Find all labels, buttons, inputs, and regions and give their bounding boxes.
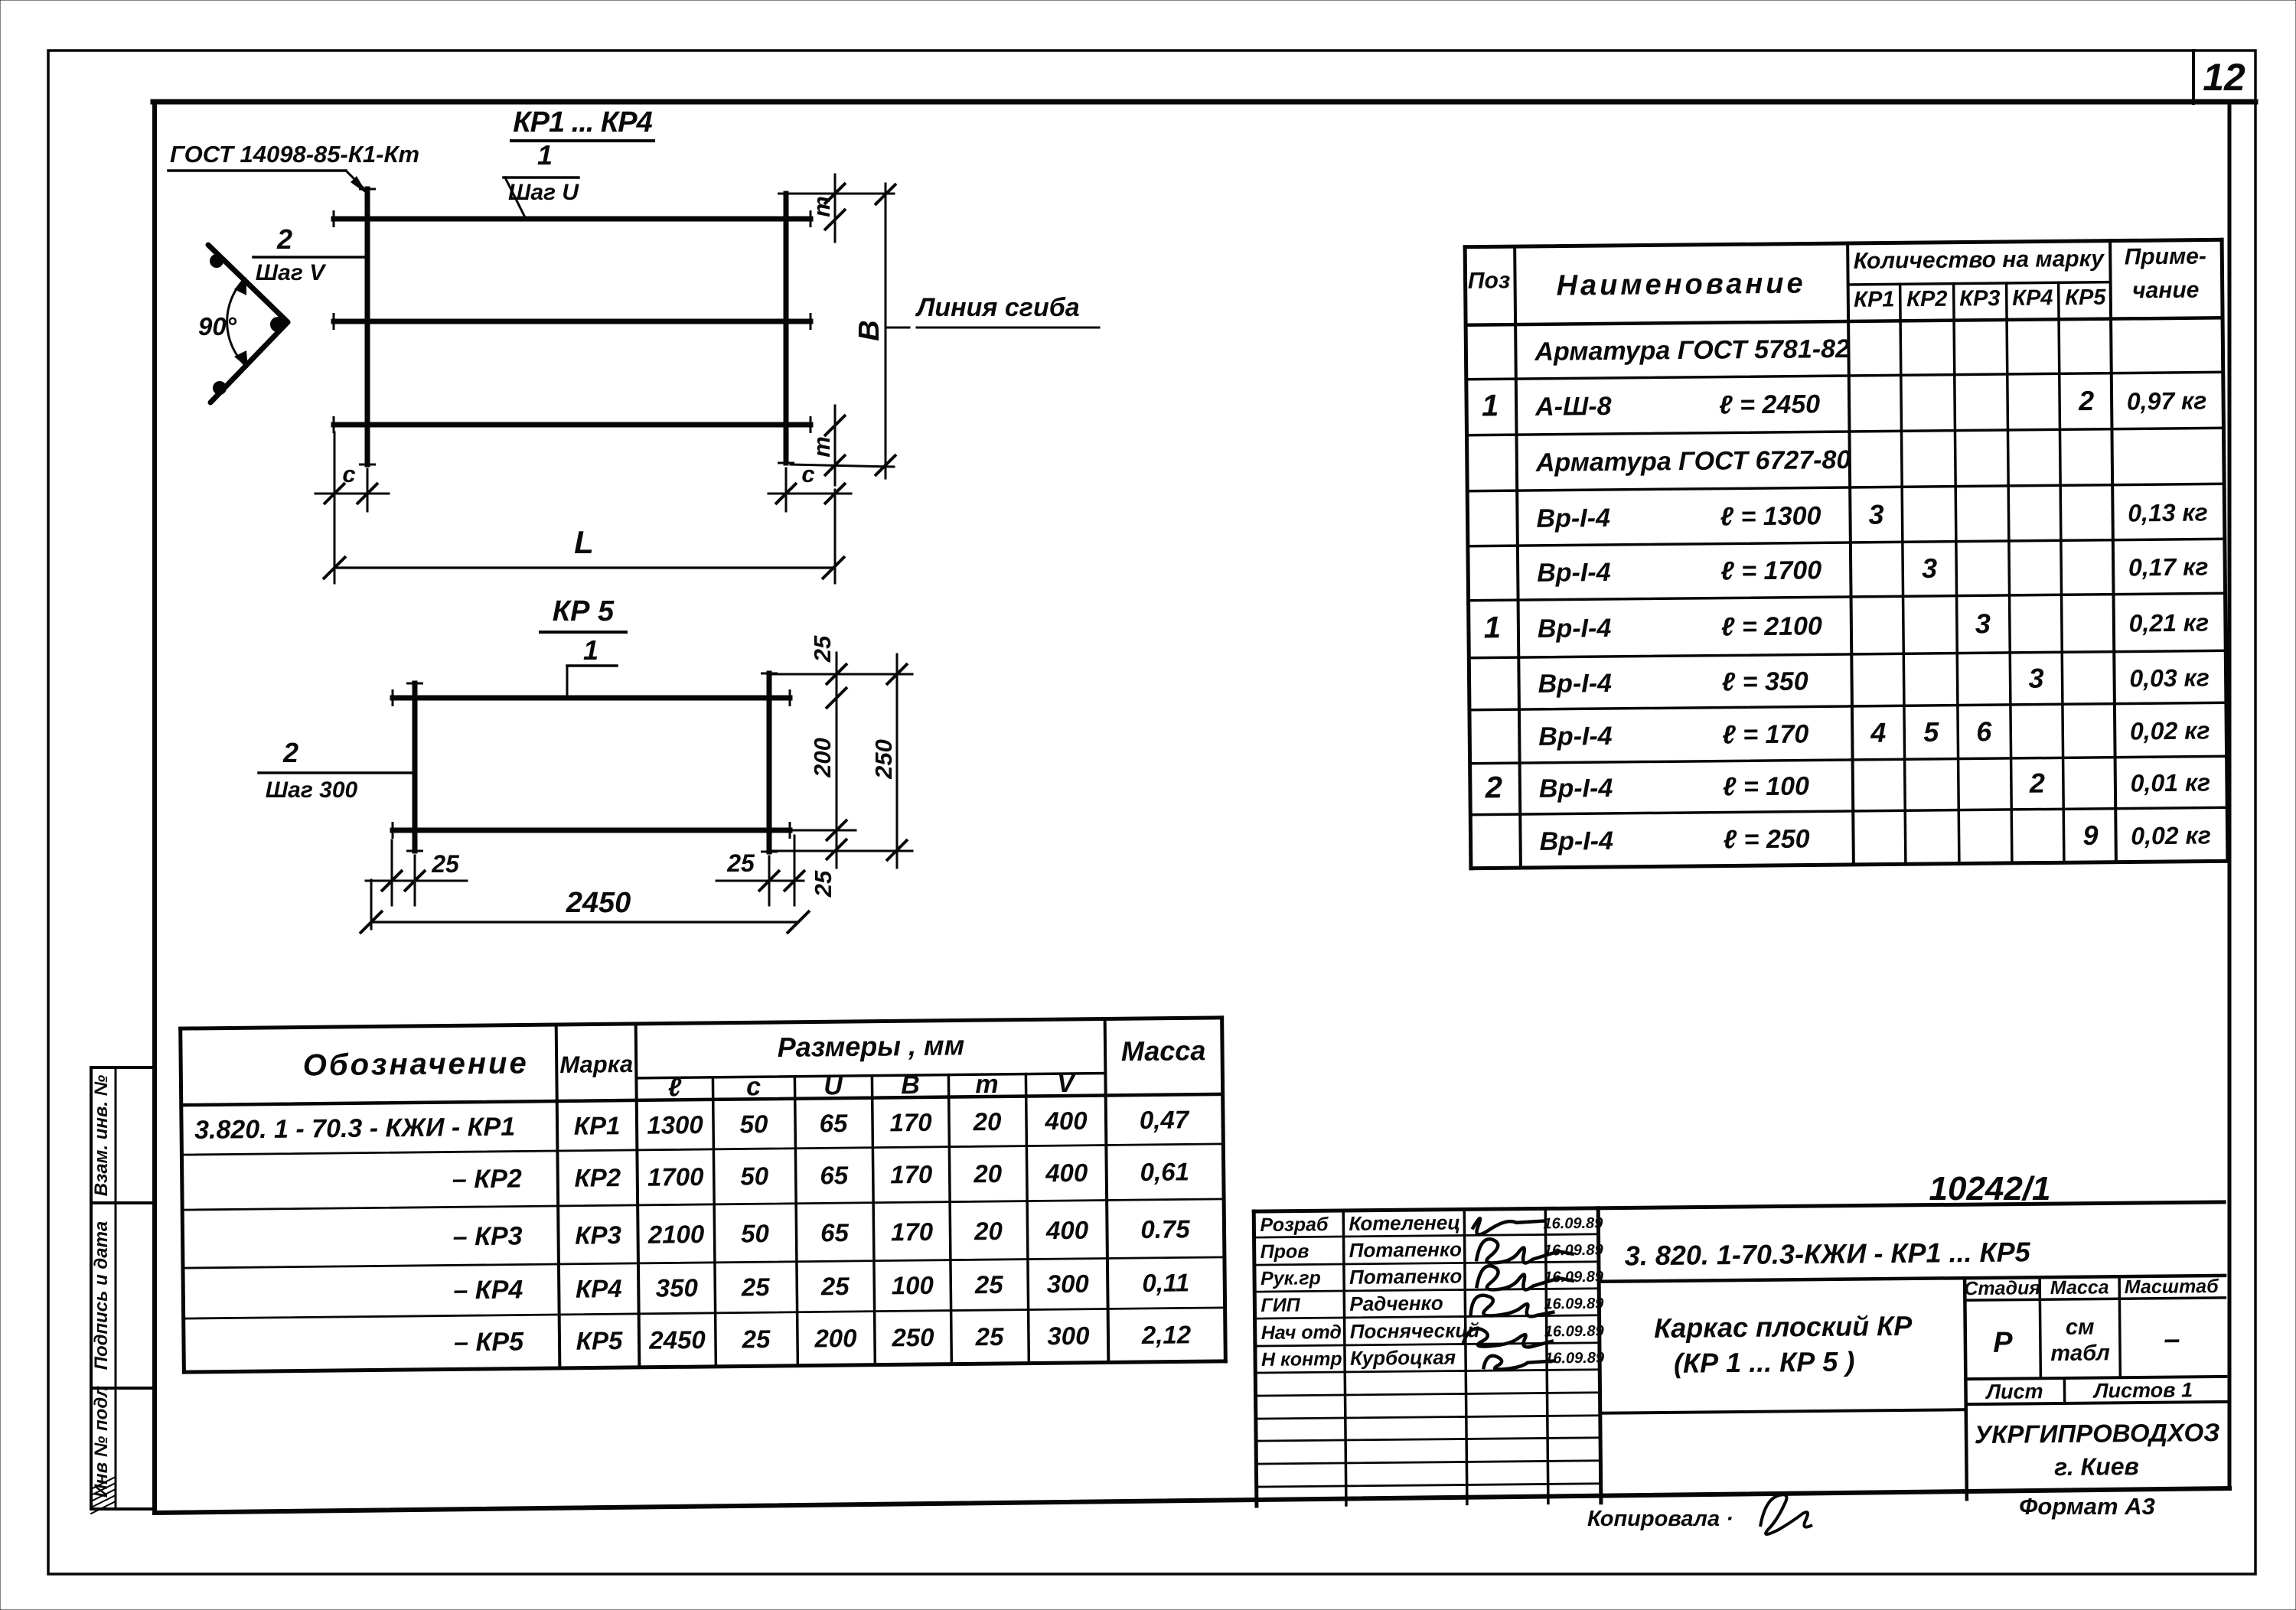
strip corner hatch: [91, 1477, 116, 1514]
svg-text:3: 3: [1975, 608, 1991, 639]
svg-text:Масса: Масса: [1121, 1035, 1206, 1067]
svg-text:400: 400: [1044, 1106, 1088, 1136]
svg-text:Вр-I-4: Вр-I-4: [1536, 504, 1610, 533]
svg-text:КР5: КР5: [2065, 285, 2106, 311]
specification table rows text: [1480, 331, 2211, 856]
svg-text:U: U: [823, 1071, 843, 1100]
svg-text:КР5: КР5: [576, 1326, 623, 1355]
callout 2 / Shag V: [253, 223, 365, 285]
svg-text:Линия сгиба: Линия сгиба: [915, 293, 1080, 322]
label Liniya sgiba: [888, 293, 1099, 328]
svg-text:0,01 кг: 0,01 кг: [2130, 768, 2210, 797]
callout 1 / Shag U: [504, 139, 579, 217]
svg-text:0,61: 0,61: [1140, 1157, 1189, 1186]
svg-text:с: с: [746, 1072, 761, 1101]
title block texts: [1260, 1204, 2221, 1488]
svg-text:Шаг 300: Шаг 300: [266, 777, 358, 803]
svg-text:2450: 2450: [648, 1325, 706, 1354]
svg-text:25: 25: [741, 1325, 771, 1353]
svg-text:ℓ = 250: ℓ = 250: [1723, 824, 1809, 854]
svg-text:ℓ = 2450: ℓ = 2450: [1719, 389, 1820, 419]
svg-text:Котеленец: Котеленец: [1349, 1211, 1460, 1235]
svg-text:Лист: Лист: [1985, 1380, 2043, 1403]
KP5 dimension 25 (bottom right, vertical): [773, 839, 912, 898]
svg-text:–: –: [2164, 1323, 2180, 1355]
bent-wire 90 deg detail: [198, 245, 288, 402]
svg-text:Шаг U: Шаг U: [508, 180, 579, 205]
svg-text:– КР5: – КР5: [454, 1327, 524, 1357]
svg-text:Вр-I-4: Вр-I-4: [1537, 558, 1611, 588]
svg-text:см: см: [2066, 1315, 2095, 1340]
svg-text:г. Киев: г. Киев: [2054, 1452, 2139, 1481]
svg-text:25: 25: [431, 850, 460, 878]
svg-text:Розраб: Розраб: [1260, 1214, 1329, 1236]
svg-text:5: 5: [1923, 716, 1939, 748]
svg-text:65: 65: [820, 1218, 850, 1247]
svg-text:25: 25: [726, 849, 755, 877]
svg-text:0,03 кг: 0,03 кг: [2129, 663, 2210, 692]
svg-text:170: 170: [890, 1160, 933, 1189]
dimension m (bottom right): [791, 406, 894, 485]
svg-text:Марка: Марка: [559, 1051, 633, 1078]
svg-text:Обозначение: Обозначение: [302, 1046, 528, 1082]
svg-text:L: L: [574, 524, 594, 560]
svg-text:400: 400: [1045, 1159, 1088, 1188]
svg-text:ℓ = 2100: ℓ = 2100: [1721, 611, 1822, 641]
svg-text:m: m: [808, 196, 835, 217]
svg-text:ℓ: ℓ: [668, 1073, 682, 1102]
svg-text:400: 400: [1045, 1216, 1089, 1245]
svg-text:2100: 2100: [647, 1220, 705, 1249]
svg-text:25: 25: [741, 1273, 771, 1301]
svg-text:2450: 2450: [566, 887, 631, 919]
dimensions table rows text: [194, 1105, 1192, 1360]
svg-text:Шаг V: Шаг V: [256, 260, 327, 285]
svg-text:m: m: [808, 436, 835, 458]
svg-text:В: В: [853, 320, 885, 341]
svg-text:0,13 кг: 0,13 кг: [2128, 498, 2208, 526]
svg-text:(КР 1 ... КР 5 ): (КР 1 ... КР 5 ): [1674, 1346, 1855, 1379]
svg-text:0,47: 0,47: [1140, 1105, 1190, 1134]
KP5 cross wire right: [761, 673, 778, 852]
svg-text:200: 200: [814, 1324, 857, 1353]
svg-text:65: 65: [819, 1109, 848, 1137]
svg-text:3. 820. 1-70.3-КЖИ - КР1 ...: 3. 820. 1-70.3-КЖИ - КР1 ... КР5: [1625, 1236, 2031, 1271]
svg-text:0.75: 0.75: [1140, 1214, 1190, 1243]
dimension c (bottom right): [768, 461, 851, 583]
svg-text:Каркас плоский КР: Каркас плоский КР: [1654, 1310, 1913, 1344]
specification table (Poz/Naimenovanie/Kolichestvo): [1465, 240, 2228, 868]
dimension c (bottom left): [315, 432, 389, 583]
KP5 dimension 200 (right): [793, 738, 856, 841]
svg-text:Вр-I-4: Вр-I-4: [1538, 669, 1612, 699]
svg-text:1: 1: [1484, 611, 1502, 644]
KP5 longitudinal wire top: [393, 689, 790, 706]
callout 1 leader (KP5): [567, 634, 617, 695]
svg-text:– КР2: – КР2: [452, 1164, 522, 1194]
svg-text:Нач отд: Нач отд: [1261, 1322, 1342, 1344]
svg-text:ℓ = 1300: ℓ = 1300: [1720, 501, 1821, 531]
svg-text:Курбоцкая: Курбоцкая: [1350, 1346, 1456, 1370]
svg-text:0,97 кг: 0,97 кг: [2127, 386, 2207, 415]
svg-text:чание: чание: [2132, 278, 2200, 304]
svg-text:20: 20: [972, 1107, 1002, 1136]
svg-text:2: 2: [282, 737, 298, 768]
svg-text:ГИП: ГИП: [1261, 1295, 1301, 1317]
svg-text:m: m: [975, 1070, 999, 1099]
svg-text:Вр-I-4: Вр-I-4: [1539, 774, 1613, 803]
svg-text:Взам. инв. №: Взам. инв. №: [91, 1074, 112, 1196]
svg-text:170: 170: [889, 1108, 932, 1137]
svg-text:50: 50: [741, 1219, 770, 1247]
KP5 dimension 250 (far right): [870, 654, 908, 868]
svg-text:50: 50: [740, 1162, 769, 1190]
svg-text:0,21 кг: 0,21 кг: [2128, 608, 2209, 637]
svg-text:100: 100: [892, 1271, 934, 1300]
svg-text:Размеры , мм: Размеры , мм: [777, 1029, 964, 1063]
svg-text:20: 20: [973, 1159, 1003, 1188]
svg-text:табл: табл: [2050, 1341, 2110, 1366]
svg-text:0,02 кг: 0,02 кг: [2130, 716, 2210, 745]
svg-text:25: 25: [974, 1270, 1004, 1299]
svg-text:КР 5: КР 5: [553, 595, 615, 627]
svg-text:250: 250: [870, 739, 897, 780]
svg-text:25: 25: [820, 1272, 850, 1300]
svg-text:16.09.89: 16.09.89: [1544, 1323, 1605, 1341]
svg-text:90°: 90°: [198, 312, 237, 341]
svg-text:1: 1: [537, 139, 553, 171]
callout 2 / Shag 300: [259, 737, 413, 803]
rebar longitudinal wire bottom: [334, 416, 810, 433]
svg-text:Вр-I-4: Вр-I-4: [1539, 826, 1613, 856]
svg-text:2: 2: [2078, 385, 2094, 416]
svg-text:170: 170: [891, 1217, 934, 1247]
svg-text:А-Ш-8: А-Ш-8: [1534, 392, 1612, 422]
svg-text:Масштаб: Масштаб: [2125, 1276, 2220, 1298]
svg-text:В: В: [901, 1071, 920, 1100]
svg-text:ГОСТ 14098-85-К1-Кт: ГОСТ 14098-85-К1-Кт: [170, 141, 419, 168]
dimensions table (Oboznachenie/Marka/Razmery/Massa): [181, 1018, 1226, 1372]
svg-text:КР1: КР1: [1854, 287, 1895, 312]
svg-text:КР4: КР4: [2012, 285, 2053, 311]
svg-text:16.09.89: 16.09.89: [1544, 1269, 1604, 1286]
svg-text:1: 1: [583, 634, 598, 666]
dimensions table header text: [302, 1027, 1206, 1106]
rebar longitudinal wire middle: [334, 313, 810, 330]
svg-text:Стадия: Стадия: [1964, 1277, 2040, 1299]
svg-text:КР1 ... КР4: КР1 ... КР4: [513, 106, 652, 139]
svg-text:2: 2: [2029, 768, 2045, 799]
svg-text:– КР3: – КР3: [453, 1221, 523, 1251]
svg-text:с: с: [801, 461, 814, 487]
svg-text:6: 6: [1976, 715, 1992, 747]
svg-text:0,02 кг: 0,02 кг: [2131, 821, 2211, 849]
svg-text:4: 4: [1870, 717, 1886, 748]
svg-text:V: V: [1057, 1069, 1077, 1098]
svg-text:9: 9: [2082, 820, 2098, 851]
svg-text:25: 25: [974, 1322, 1004, 1351]
svg-text:КР1: КР1: [574, 1111, 621, 1140]
dimension L (bottom): [323, 524, 845, 579]
svg-text:1700: 1700: [647, 1162, 704, 1191]
svg-text:Пров: Пров: [1261, 1240, 1309, 1263]
rebar cross wire left: [359, 189, 376, 464]
page number box 12: [2193, 51, 2245, 103]
svg-text:УКРГИПРОВОДХОЗ: УКРГИПРОВОДХОЗ: [1975, 1418, 2220, 1449]
svg-text:Посняческий: Посняческий: [1350, 1318, 1480, 1343]
svg-text:Рук.гр: Рук.гр: [1261, 1267, 1321, 1289]
svg-text:1: 1: [1482, 389, 1499, 422]
title block grid: [1254, 1202, 2227, 1506]
KP5 longitudinal wire bottom: [393, 822, 790, 839]
svg-text:КР3: КР3: [1959, 286, 2001, 311]
svg-text:Потапенко: Потапенко: [1349, 1264, 1463, 1288]
svg-text:2: 2: [276, 223, 292, 255]
specification table header text: [1468, 243, 2207, 315]
rebar cross wire right (fold line): [778, 194, 794, 463]
svg-text:Листов 1: Листов 1: [2092, 1378, 2193, 1402]
svg-text:Вр-I-4: Вр-I-4: [1538, 722, 1613, 751]
drawing KP5 : title: [540, 595, 626, 632]
svg-text:50: 50: [739, 1110, 768, 1138]
svg-text:2,12: 2,12: [1141, 1320, 1192, 1349]
svg-text:Арматура ГОСТ 5781-82: Арматура ГОСТ 5781-82: [1534, 334, 1850, 367]
svg-text:16.09.89: 16.09.89: [1544, 1242, 1604, 1260]
svg-text:Копировала ·: Копировала ·: [1587, 1507, 1733, 1531]
KP5 dimension 25 (bottom, near right): [716, 836, 805, 905]
svg-text:КР2: КР2: [1906, 287, 1948, 312]
svg-text:300: 300: [1047, 1322, 1090, 1351]
svg-text:Масса: Масса: [2050, 1276, 2109, 1299]
KP5 dimension 25 (top right): [773, 635, 912, 868]
svg-text:65: 65: [820, 1161, 849, 1189]
dimension m (top right): [791, 174, 894, 242]
svg-text:с: с: [342, 461, 355, 487]
svg-text:Н контр: Н контр: [1261, 1348, 1342, 1370]
svg-text:Арматура ГОСТ 6727-80: Арматура ГОСТ 6727-80: [1535, 445, 1851, 477]
svg-text:10242/1: 10242/1: [1929, 1170, 2050, 1207]
svg-text:Потапенко: Потапенко: [1349, 1237, 1463, 1261]
KP5 dimension 25 (bottom left): [366, 840, 467, 905]
dimension B (right): [853, 184, 896, 478]
note Kopirovala with signature: [1587, 1494, 1812, 1534]
svg-text:Р: Р: [1993, 1327, 2013, 1359]
label GOST 14098-85-K1-Kt with leader: [168, 141, 419, 194]
svg-text:3: 3: [1922, 552, 1937, 584]
KP5 dimension 2450 (bottom): [360, 880, 810, 934]
svg-text:16.09.89: 16.09.89: [1543, 1215, 1603, 1233]
rebar longitudinal wire top: [334, 210, 810, 227]
left margin strip boxes: [91, 1067, 155, 1509]
svg-text:0,11: 0,11: [1142, 1268, 1189, 1297]
svg-text:ℓ = 1700: ℓ = 1700: [1720, 556, 1821, 585]
svg-text:КР2: КР2: [574, 1163, 621, 1192]
svg-text:300: 300: [1047, 1269, 1090, 1299]
svg-text:– КР4: – КР4: [453, 1275, 523, 1305]
svg-text:250: 250: [891, 1323, 934, 1352]
drawing KP1...KP4 : title: [511, 106, 654, 141]
svg-text:Поз: Поз: [1468, 268, 1511, 294]
svg-text:Формат А3: Формат А3: [2019, 1493, 2155, 1520]
svg-text:20: 20: [974, 1217, 1003, 1245]
svg-text:2: 2: [1485, 771, 1503, 804]
svg-text:1300: 1300: [647, 1110, 703, 1139]
svg-text:Подпись и дата: Подпись и дата: [91, 1221, 112, 1370]
svg-text:16.09.89: 16.09.89: [1544, 1350, 1605, 1367]
svg-text:12: 12: [2203, 56, 2245, 99]
KP5 cross wire left: [406, 683, 423, 851]
svg-text:3: 3: [1868, 499, 1883, 530]
svg-text:ℓ = 100: ℓ = 100: [1723, 771, 1809, 801]
svg-text:25: 25: [809, 635, 836, 663]
svg-text:Приме-: Приме-: [2125, 243, 2206, 269]
svg-text:3.820. 1 - 70.3 - КЖИ - КР1: 3.820. 1 - 70.3 - КЖИ - КР1: [194, 1113, 515, 1145]
svg-text:ℓ = 170: ℓ = 170: [1722, 719, 1808, 749]
svg-text:16.09.89: 16.09.89: [1544, 1295, 1604, 1313]
svg-text:Радченко: Радченко: [1349, 1292, 1443, 1315]
svg-text:КР3: КР3: [575, 1221, 621, 1250]
svg-text:0,17 кг: 0,17 кг: [2128, 552, 2209, 581]
svg-text:ℓ = 350: ℓ = 350: [1721, 666, 1808, 696]
svg-text:КР4: КР4: [576, 1274, 622, 1303]
svg-text:3: 3: [2028, 663, 2043, 694]
svg-text:350: 350: [656, 1273, 699, 1302]
svg-text:200: 200: [809, 738, 836, 778]
svg-text:Вр-I-4: Вр-I-4: [1538, 614, 1612, 644]
svg-text:25: 25: [810, 870, 837, 898]
svg-text:Количество на марку: Количество на марку: [1854, 246, 2105, 274]
svg-text:Наименование: Наименование: [1556, 267, 1805, 301]
